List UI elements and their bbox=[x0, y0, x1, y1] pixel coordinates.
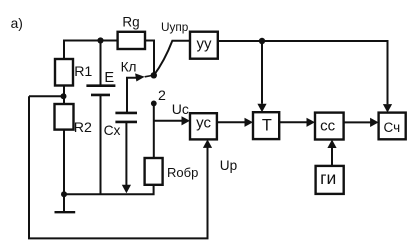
svg-text:Uупр: Uупр bbox=[161, 20, 189, 34]
svg-text:ги: ги bbox=[320, 168, 336, 188]
svg-text:R2: R2 bbox=[74, 120, 92, 136]
svg-text:сс: сс bbox=[320, 117, 336, 134]
svg-text:Сч: Сч bbox=[383, 120, 400, 135]
svg-text:Кл: Кл bbox=[121, 60, 137, 75]
svg-text:Cx: Cx bbox=[104, 123, 121, 138]
svg-text:a): a) bbox=[11, 16, 23, 31]
svg-text:Uc: Uc bbox=[172, 101, 189, 117]
svg-text:E: E bbox=[104, 70, 114, 86]
svg-text:Rобр: Rобр bbox=[167, 165, 198, 180]
svg-text:Rg: Rg bbox=[122, 14, 139, 29]
svg-text:R1: R1 bbox=[74, 64, 92, 80]
svg-text:Uр: Uр bbox=[220, 158, 237, 173]
svg-text:ус: ус bbox=[196, 115, 211, 132]
svg-text:уу: уу bbox=[197, 36, 213, 53]
svg-text:Т: Т bbox=[262, 117, 272, 135]
svg-text:2: 2 bbox=[158, 88, 166, 104]
